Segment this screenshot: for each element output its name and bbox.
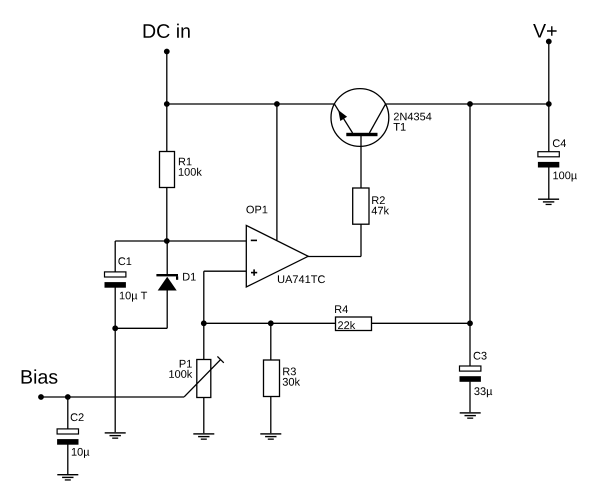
- potentiometer P1 wiper crossbar: [217, 356, 223, 362]
- wire base to R2: [360, 136, 362, 188]
- wire R1 top: [166, 104, 168, 152]
- resistor R1: [160, 152, 175, 188]
- node Bias/C2: [65, 394, 71, 400]
- label C1 value: [120, 292, 147, 302]
- label OP1: [246, 206, 267, 214]
- label P1: [180, 360, 192, 368]
- transistor T1 emitter arrow: [338, 110, 347, 121]
- wire C1 horizontal: [115, 240, 167, 242]
- transistor T1 base bar: [346, 133, 377, 136]
- terminal V+: [546, 39, 552, 45]
- label C2: [71, 413, 84, 421]
- wire op-amp supply drop: [276, 104, 278, 240]
- op-amp plus sign horizontal: [251, 272, 257, 274]
- label R3: [283, 368, 296, 376]
- diode D1 cathode bar: [156, 274, 178, 276]
- label "Bias": [22, 369, 58, 383]
- label P1 value: [169, 370, 192, 378]
- wire D1 to C1 node: [115, 327, 167, 329]
- capacitor C3: [460, 366, 481, 382]
- label R1: [179, 158, 192, 166]
- wire top rail right: [385, 103, 548, 105]
- wire noninverting input: [204, 270, 247, 272]
- wire C3 to ground: [469, 382, 471, 413]
- node lower rail left: [201, 320, 207, 326]
- ground below P1: [193, 433, 214, 440]
- ground below C4: [538, 199, 559, 206]
- wire V+ drop: [548, 42, 550, 105]
- diode D1 zener hook: [176, 276, 178, 279]
- ground below C2: [57, 474, 78, 481]
- ground below C3: [460, 412, 481, 419]
- ground below C1: [105, 432, 126, 439]
- wire R3 top: [270, 323, 272, 360]
- label C3 value: [474, 387, 492, 397]
- label R2: [372, 196, 385, 204]
- potentiometer P1 wiper diagonal: [184, 360, 220, 397]
- label R3 value: [283, 378, 300, 386]
- resistor R4: [336, 317, 372, 331]
- wire C1 node to ground: [114, 328, 116, 432]
- op-amp plus sign vertical: [253, 269, 255, 275]
- wire R3 bottom: [270, 397, 272, 434]
- terminal Bias: [38, 394, 44, 400]
- wire C2 top: [67, 397, 69, 429]
- wire C1 bottom: [114, 288, 116, 329]
- capacitor C2: [57, 429, 78, 445]
- wire R1 bottom: [166, 188, 168, 242]
- label T1: [394, 123, 406, 131]
- wire lower rail right of R4: [372, 322, 471, 324]
- label "V+": [533, 24, 557, 38]
- label UA741TC: [278, 275, 325, 283]
- label 2N4354: [394, 113, 432, 121]
- op-amp minus sign: [251, 239, 257, 241]
- node rail/R1: [164, 101, 170, 107]
- label C1: [118, 257, 131, 265]
- node rail/op-amp supply: [274, 101, 280, 107]
- wire P1 bottom: [203, 398, 205, 434]
- wire Bias horizontal: [41, 396, 184, 398]
- wire P1 top: [203, 323, 205, 359]
- wire D1 top: [166, 241, 168, 274]
- label "DC in": [144, 24, 190, 38]
- wire DC in drop: [166, 52, 168, 105]
- resistor R2: [353, 188, 369, 224]
- wire V+ to C4: [548, 104, 550, 152]
- label R2 value: [372, 206, 390, 214]
- wire lower rail left of R4: [204, 322, 336, 324]
- label C3: [474, 352, 487, 360]
- label D1: [183, 273, 196, 281]
- wire C4 to ground: [548, 167, 550, 198]
- label R1 value: [179, 168, 202, 176]
- label C4 value: [553, 172, 577, 182]
- wire inverting input: [167, 240, 247, 242]
- label C2 value: [72, 448, 90, 458]
- diode D1 triangle: [158, 277, 177, 291]
- wire C1 top: [114, 241, 116, 272]
- wire C3 top: [469, 323, 471, 366]
- node rail/C3 branch: [467, 101, 473, 107]
- node R3 top: [268, 320, 274, 326]
- wire op-amp output: [308, 256, 361, 258]
- potentiometer P1: [197, 360, 211, 398]
- label R4: [335, 305, 348, 313]
- node R1/C1/D1/inverting input: [164, 238, 170, 244]
- terminal DC in: [164, 49, 170, 55]
- op-amp OP1 triangle: [246, 225, 308, 287]
- label R4 value: [338, 321, 355, 329]
- node C1 bottom: [112, 325, 118, 331]
- node R4/C3: [467, 320, 473, 326]
- ground below R3: [260, 433, 281, 440]
- wire top rail left: [167, 103, 335, 105]
- transistor T1 collector diagonal: [369, 104, 385, 133]
- node rail/V+: [546, 101, 552, 107]
- transistor T1 body: [331, 89, 389, 147]
- capacitor C4: [538, 152, 559, 168]
- wire C3 branch vertical: [469, 104, 471, 323]
- resistor R3: [264, 360, 280, 397]
- wire C2 to ground: [67, 445, 69, 475]
- label C4: [553, 139, 566, 147]
- capacitor C1: [105, 272, 126, 288]
- wire R2 to output corner: [360, 224, 362, 256]
- wire D1 bottom: [166, 291, 168, 329]
- transistor T1 emitter diagonal: [335, 104, 353, 133]
- wire noninverting drop: [203, 271, 205, 323]
